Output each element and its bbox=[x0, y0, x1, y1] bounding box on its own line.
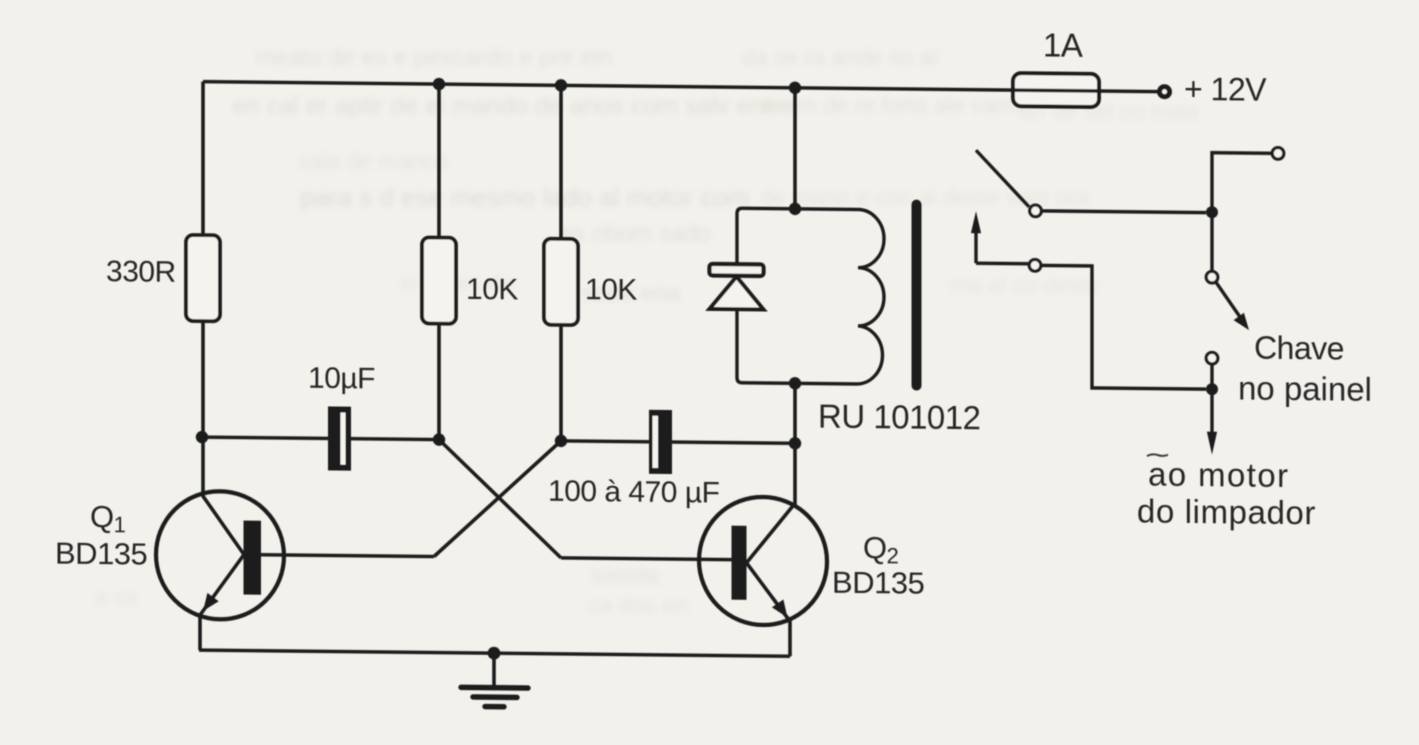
svg-text:Q1: Q1 bbox=[90, 499, 126, 537]
svg-text:do limpador: do limpador bbox=[1137, 492, 1316, 531]
svg-text:BD135: BD135 bbox=[55, 536, 147, 572]
svg-text:no painel: no painel bbox=[1238, 369, 1372, 407]
svg-text:Chave: Chave bbox=[1254, 330, 1344, 367]
svg-text:1A: 1A bbox=[1043, 26, 1083, 63]
svg-text:RU 101012: RU 101012 bbox=[818, 398, 980, 437]
svg-text:100 à 470 µF: 100 à 470 µF bbox=[548, 475, 720, 510]
svg-text:ao motor: ao motor bbox=[1148, 456, 1289, 494]
svg-text:+ 12V: + 12V bbox=[1184, 71, 1267, 108]
svg-text:10µF: 10µF bbox=[308, 362, 375, 396]
svg-text:10K: 10K bbox=[466, 273, 518, 307]
svg-text:Q2: Q2 bbox=[863, 530, 899, 568]
svg-text:330R: 330R bbox=[106, 255, 176, 289]
svg-text:BD135: BD135 bbox=[832, 565, 924, 601]
svg-text:10K: 10K bbox=[585, 273, 637, 307]
